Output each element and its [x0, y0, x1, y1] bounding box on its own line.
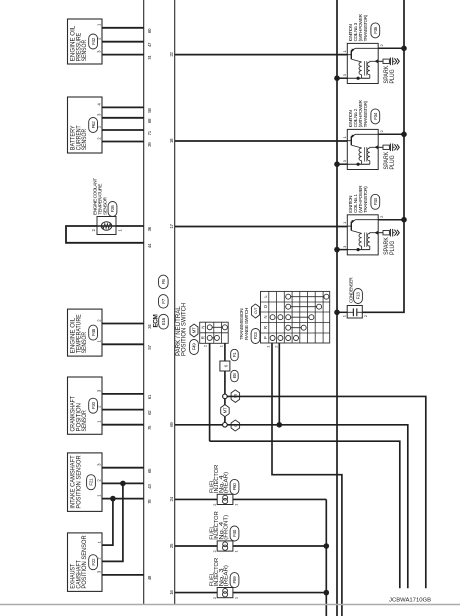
connector F1 oval	[231, 349, 239, 361]
wire from joint C down/left (to TCM next page)	[227, 425, 408, 589]
TR switch pin 1 wire	[272, 343, 342, 616]
svg-text:SENSOR: SENSOR	[82, 39, 88, 61]
wire F62 pin 2 to ECM 39	[102, 141, 144, 143]
svg-text:F20: F20	[91, 401, 96, 409]
INTAKE CAMSHAFT F21 box	[68, 453, 103, 512]
TR contacts column L	[286, 294, 291, 299]
wire F48 pin 1 to ECM 57	[102, 343, 144, 345]
PNP pin 2 wire (upper)	[209, 343, 211, 441]
TR contacts column R	[286, 325, 291, 330]
connector F7 oval	[159, 295, 169, 309]
wire from joint M down/left	[227, 396, 426, 588]
svg-text:F22: F22	[91, 558, 96, 566]
svg-text:TRANSISTOR): TRANSISTOR)	[363, 14, 368, 41]
coil No.2 pin 2 wire to bus	[378, 133, 404, 135]
junction TR switch pin wire	[277, 422, 283, 428]
coil No.1 pin 2 wire to bus	[378, 219, 404, 221]
wire F20 pin 1 to ECM 75	[102, 424, 144, 426]
wire F62 pin 3 to ECM 68	[102, 117, 144, 119]
ground chevrons of spark plug No.3	[394, 58, 396, 64]
PNP upper wire down/left	[210, 441, 400, 588]
ignition coil No.3 (F35) with power transistor	[347, 43, 378, 83]
PNP switch contact grid	[200, 322, 229, 343]
ignition coil No.1 (F33) with power transistor	[347, 215, 378, 255]
wire F42 pin 2 to ECM 47	[102, 41, 144, 43]
primary winding coil No.1	[359, 233, 362, 246]
connector F20 oval	[89, 398, 98, 413]
ENGINE OIL F42 box	[68, 19, 103, 64]
wire F21 pin 3 to ECM 65	[102, 467, 144, 469]
wire F21 pin 2 to ECM 43	[102, 482, 144, 484]
option joint circle (M)	[223, 394, 228, 399]
BATTERY F62 box	[68, 97, 103, 153]
connector F62 oval	[89, 118, 98, 133]
junction condenser on bus 1	[334, 309, 340, 315]
junction on ignition bus 2	[401, 131, 407, 137]
coil No.3 pin 2 wire to bus	[378, 47, 404, 49]
F22 pin 2 wire to joint	[102, 483, 123, 561]
junction on ignition bus 1	[334, 161, 340, 167]
wire ECM 25 to injector pin 2	[175, 545, 218, 547]
svg-text:(REAR): (REAR)	[224, 565, 230, 587]
common return to pin 3 of coil No.3	[347, 77, 370, 79]
svg-text:F23: F23	[253, 332, 258, 340]
core of coil No.2	[364, 147, 366, 161]
svg-text:(REAR): (REAR)	[224, 471, 230, 493]
svg-text:E16: E16	[161, 317, 166, 325]
wire F62 pin 4 to ECM 58	[102, 106, 144, 108]
TR contacts column P	[270, 336, 275, 341]
wire ECM 22 to coil No.3 pin 1	[175, 54, 348, 56]
fuel injector INJECTOR F40	[217, 541, 233, 551]
page edge line	[0, 604, 460, 606]
connector F34 oval	[371, 109, 380, 124]
junction on ignition bus 1	[334, 247, 340, 253]
spark plug body No.1	[383, 231, 389, 235]
junction injector No.3 rear	[324, 590, 330, 596]
spark plug of coil No.3	[378, 60, 383, 62]
connector F40 oval	[230, 526, 239, 541]
injector supply bus	[325, 499, 327, 616]
svg-text:F62: F62	[91, 121, 96, 129]
spark plug body No.2	[383, 145, 389, 149]
wire ECM 69 to option joint	[175, 424, 223, 426]
svg-text:F26: F26	[110, 205, 115, 213]
ground chevrons of spark plug No.1	[394, 230, 396, 236]
wire ECM 18 to coil No.2 pin 1	[175, 140, 348, 142]
CRANKSHAFT F20 box	[68, 377, 103, 434]
wire F22 pin 3 to ECM 48	[102, 574, 144, 576]
injector pin 1 wire to supply bus	[233, 545, 326, 547]
svg-text:F48: F48	[91, 328, 96, 336]
svg-text:F40: F40	[232, 529, 237, 537]
connector F8 oval	[159, 275, 169, 289]
svg-text:SENSOR: SENSOR	[103, 196, 109, 215]
connector E8 oval	[231, 370, 239, 382]
wire F20 pin 2 to ECM 62	[102, 409, 144, 411]
svg-text:F59: F59	[232, 576, 237, 584]
PNP contacts column N	[207, 325, 212, 330]
ignition bus 2 from condenser to right edge	[362, 0, 404, 312]
svg-text:RANGE SWITCH: RANGE SWITCH	[244, 307, 250, 340]
connector F60 oval	[230, 479, 239, 494]
primary winding coil No.3	[359, 62, 362, 75]
connector F21 oval	[87, 475, 96, 490]
junction F22 pin2 / pin 43 wire	[120, 481, 126, 487]
connector F23 oval	[251, 329, 260, 344]
MT jumper segment	[224, 399, 226, 405]
svg-text:D: D	[263, 305, 268, 308]
option joint circle (C)	[223, 423, 228, 428]
svg-text:E8: E8	[232, 373, 237, 379]
TR switch pin 2 wire	[278, 343, 280, 425]
svg-text:N: N	[200, 326, 205, 329]
injector pin 1 wire to supply bus	[233, 498, 326, 500]
condenser F13	[347, 306, 362, 319]
capacitor plates	[352, 308, 354, 316]
MT model hexagon	[190, 324, 198, 337]
svg-text:R: R	[263, 326, 268, 329]
coil No.2 pin 3 wire to bus	[337, 163, 347, 165]
TR switch contact grid	[261, 291, 330, 343]
svg-text:F33: F33	[373, 198, 378, 206]
connector F35 oval	[371, 23, 380, 38]
svg-text:TRANSISTOR): TRANSISTOR)	[363, 100, 368, 127]
joint connector box 6	[220, 361, 230, 371]
svg-text:POSITION SWITCH: POSITION SWITCH	[182, 303, 188, 356]
PNP contacts column R	[207, 335, 212, 340]
ground chevrons of spark plug No.2	[394, 144, 396, 150]
svg-text:F21: F21	[89, 478, 94, 486]
connector E16 oval	[159, 314, 169, 329]
ignition power bus (to all coil pin 3)	[336, 0, 338, 616]
core of coil No.3	[364, 61, 366, 75]
junction on ignition bus 1	[334, 75, 340, 81]
PNP pin 1 wire (lower) through joint	[224, 343, 226, 361]
secondary winding out to spark plug No.3	[370, 60, 378, 63]
secondary winding out to spark plug No.2	[370, 146, 378, 149]
CVT model hexagon	[252, 304, 260, 318]
svg-text:POSITION SENSOR: POSITION SENSOR	[76, 455, 82, 509]
connector F49 oval	[190, 340, 199, 355]
wire F21 pin 1 to ECM 78	[102, 498, 144, 500]
svg-text:F49: F49	[192, 343, 197, 351]
svg-text:PLUG: PLUG	[390, 69, 396, 83]
svg-text:MT: MT	[223, 407, 228, 413]
connector F48 oval	[89, 325, 98, 340]
wire F62 pin 1 to ECM 71	[102, 129, 144, 131]
primary winding coil No.2	[359, 148, 362, 161]
svg-text:F60: F60	[232, 483, 237, 491]
injector pin 1 wire to supply bus	[233, 592, 326, 594]
F26 pin 1 wire to ECM 36	[116, 225, 144, 227]
svg-text:F13: F13	[356, 292, 361, 300]
connector F42 oval	[89, 34, 98, 49]
svg-text:PLUG: PLUG	[390, 240, 396, 254]
secondary winding out to spark plug No.1	[370, 232, 378, 235]
junction on ignition bus 2	[401, 46, 407, 52]
TR contacts column N	[270, 315, 275, 320]
svg-text:MT: MT	[192, 327, 197, 333]
junction on ignition bus 2	[401, 217, 407, 223]
wire F20 pin 3 to ECM 61	[102, 393, 144, 395]
wire ECM 17 to coil No.1 pin 1	[175, 226, 348, 228]
MT hexagon in line	[221, 405, 230, 417]
wire F48 pin 2 to ECM 34	[102, 323, 144, 325]
wire F42 pin 1 to ECM 60	[102, 27, 144, 29]
fuel injector INJECTOR F59	[217, 588, 233, 598]
svg-text:JCBWA1710GB: JCBWA1710GB	[389, 598, 431, 604]
wire ECM 24 to injector pin 2	[175, 498, 218, 500]
F22 pin 1 wire to joint	[102, 499, 113, 545]
F26 thermistor symbol box	[97, 217, 116, 235]
power transistor inside coil No.2	[347, 140, 351, 142]
connector F26 oval	[108, 202, 117, 217]
svg-text:SENSOR: SENSOR	[82, 410, 88, 432]
wire F42 pin 3 to ECM 74	[102, 54, 144, 56]
connector F13 oval	[354, 289, 363, 304]
svg-text:SENSOR: SENSOR	[82, 331, 88, 353]
svg-text:POSITION SENSOR: POSITION SENSOR	[82, 535, 88, 589]
svg-text:F35: F35	[373, 26, 378, 34]
spark plug of coil No.1	[378, 232, 383, 234]
svg-text:(FRONT): (FRONT)	[224, 515, 230, 540]
M hexagon	[231, 390, 240, 403]
svg-text:R: R	[200, 336, 205, 339]
spark plug body No.3	[383, 59, 389, 63]
junction injector No.4 front	[324, 543, 330, 549]
ECM box (E16) long strip	[143, 0, 145, 604]
ignition coil No.2 (F34) with power transistor	[347, 129, 378, 169]
condenser pin 1 wire to bus	[337, 311, 347, 313]
core of coil No.1	[364, 233, 366, 247]
svg-text:N: N	[263, 315, 268, 318]
connector F59 oval	[230, 573, 239, 588]
svg-text:F34: F34	[373, 112, 378, 120]
svg-text:F42: F42	[91, 37, 96, 45]
wire ECM 16 to injector pin 2	[175, 592, 218, 594]
TR contacts column D	[286, 304, 291, 309]
F26 element wire through symbol	[97, 225, 116, 227]
svg-text:TRANSISTOR): TRANSISTOR)	[363, 186, 368, 213]
EXHAUST F22 box	[68, 533, 103, 592]
C hexagon	[231, 420, 240, 431]
fuel injector INJECTOR F60	[217, 494, 233, 504]
coil No.1 pin 3 wire to bus	[337, 249, 347, 251]
common return to pin 3 of coil No.2	[347, 163, 370, 165]
ENGINE OIL F48 box	[68, 309, 103, 356]
wire option joint to joint box 6	[224, 371, 226, 394]
junction F22 pin1 / pin 78 wire	[110, 496, 116, 502]
svg-text:CONDENSER: CONDENSER	[349, 277, 354, 303]
coil No.3 pin 3 wire to bus	[337, 77, 347, 79]
power transistor inside coil No.3	[347, 54, 351, 56]
svg-text:SENSOR: SENSOR	[82, 128, 88, 150]
F26 pin 2 loop wire to ECM 44	[66, 226, 144, 243]
svg-text:PLUG: PLUG	[390, 155, 396, 169]
power transistor inside coil No.1	[347, 225, 351, 227]
spark plug of coil No.2	[378, 146, 383, 148]
connector F33 oval	[371, 194, 380, 209]
common return to pin 3 of coil No.1	[347, 249, 370, 251]
connector F22 oval	[89, 555, 98, 570]
